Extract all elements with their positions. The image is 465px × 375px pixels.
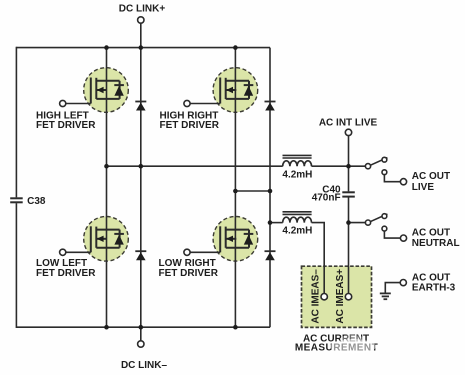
wire AC OUT EARTH lead: [385, 283, 400, 293]
wire DC LINK- lead: [140, 327, 142, 341]
watermark fade over measurement label: [330, 339, 376, 354]
wire neutral node to switch S2: [349, 222, 366, 224]
node live rail at C40: [346, 164, 351, 169]
node right bridge output at FET column: [233, 189, 238, 194]
node top bus left FET junction: [104, 45, 109, 50]
capacitor C40: [342, 192, 355, 196]
svg-text:AC IMEAS–: AC IMEAS–: [310, 269, 321, 324]
svg-text:DC LINK–: DC LINK–: [121, 360, 168, 371]
wire L2 output down to AC IMEAS-: [312, 223, 325, 294]
diode D4 lower right freewheel: [265, 251, 276, 260]
terminal AC OUT EARTH-3: [400, 280, 406, 286]
node top bus DC LINK+ junction: [139, 45, 144, 50]
transistor Q1 HIGH LEFT FET: [84, 68, 129, 113]
wire bottom bus DC LINK- rail: [16, 326, 270, 328]
diode D1 upper left freewheel: [135, 102, 146, 111]
inductor L2 coil: [283, 217, 312, 222]
svg-text:AC IMEAS+: AC IMEAS+: [335, 269, 346, 324]
wire left bridge output to inductor L1: [107, 165, 283, 167]
node top bus right FET junction: [233, 45, 238, 50]
inductor L1 core bars: [283, 155, 312, 158]
AC current measurement block outline: [302, 266, 372, 327]
switch S1 AC OUT LIVE: [365, 157, 406, 184]
node bottom bus right FET junction: [233, 325, 238, 330]
svg-text:4.2mH: 4.2mH: [282, 226, 312, 237]
terminal HIGH RIGHT FET DRIVER: [184, 100, 190, 106]
svg-text:C38: C38: [27, 196, 46, 207]
wire right diode column: [269, 48, 271, 328]
svg-text:AC INT LIVE: AC INT LIVE: [319, 117, 378, 128]
wire C40 bottom plate to neutral node and AC IMEAS+: [348, 198, 350, 294]
svg-text:FET DRIVER: FET DRIVER: [160, 120, 220, 131]
node left bridge output at FET column: [104, 164, 109, 169]
wire left diode column: [140, 48, 142, 328]
svg-text:NEUTRAL: NEUTRAL: [412, 238, 460, 249]
svg-text:LIVE: LIVE: [412, 182, 435, 193]
svg-text:AC OUT: AC OUT: [412, 227, 450, 238]
node bottom bus DC LINK- junction: [139, 325, 144, 330]
node neutral rail at C40: [346, 220, 351, 225]
wire DC LINK+ lead: [140, 23, 142, 47]
wire live node to C40 top plate: [348, 166, 350, 191]
node left bridge output at diode column: [139, 164, 144, 169]
capacitor C38: [10, 198, 23, 202]
terminal LOW RIGHT FET DRIVER: [184, 249, 190, 255]
switch S2 AC OUT NEUTRAL: [365, 214, 406, 242]
terminal DC LINK-: [138, 341, 144, 347]
terminal LOW LEFT FET DRIVER: [60, 249, 66, 255]
inductor L2 core bars: [283, 212, 312, 215]
diode D2 upper right freewheel: [265, 102, 276, 111]
svg-text:DC LINK+: DC LINK+: [119, 4, 166, 15]
wire LOW LEFT gate lead: [66, 251, 91, 253]
wire C38 branch upper segment: [15, 47, 17, 198]
wire left FET column: [106, 48, 108, 328]
svg-text:FET DRIVER: FET DRIVER: [159, 268, 219, 279]
wire right FET column: [234, 48, 236, 328]
terminal AC IMEAS- inside measurement block: [321, 294, 327, 300]
wire L1 output to live node and switch S1: [312, 165, 366, 167]
wire lower tap to inductor L2: [270, 222, 283, 224]
inductor L1 coil: [283, 161, 312, 166]
node right bridge output at diode column: [268, 189, 273, 194]
svg-text:470nF: 470nF: [312, 192, 341, 203]
terminal AC INT LIVE: [345, 129, 351, 135]
wire AC INT LIVE lead: [348, 136, 350, 167]
svg-text:EARTH-3: EARTH-3: [412, 283, 456, 294]
svg-text:FET DRIVER: FET DRIVER: [36, 268, 96, 279]
wire LOW RIGHT gate lead: [190, 251, 220, 253]
wire C38 branch lower segment: [15, 203, 17, 328]
node bottom bus left FET junction: [104, 325, 109, 330]
wire top bus DC LINK+ rail: [16, 47, 270, 49]
ground earth symbol: [380, 293, 391, 299]
transistor Q2 HIGH RIGHT FET: [213, 68, 258, 113]
terminal AC IMEAS+ inside measurement block: [345, 294, 351, 300]
wire HIGH RIGHT gate lead: [190, 103, 220, 105]
diode D3 lower left freewheel: [135, 251, 146, 260]
svg-text:FET DRIVER: FET DRIVER: [36, 120, 96, 131]
svg-text:AC OUT: AC OUT: [412, 171, 450, 182]
transistor Q3 LOW LEFT FET: [84, 217, 129, 262]
wire right bridge output bus: [235, 190, 270, 192]
svg-text:4.2mH: 4.2mH: [282, 170, 312, 181]
node L2 tap junction: [268, 220, 273, 225]
wire HIGH LEFT gate lead: [66, 103, 91, 105]
transistor Q4 LOW RIGHT FET: [213, 217, 258, 262]
terminal HIGH LEFT FET DRIVER: [60, 100, 66, 106]
terminal DC LINK+: [138, 17, 144, 23]
